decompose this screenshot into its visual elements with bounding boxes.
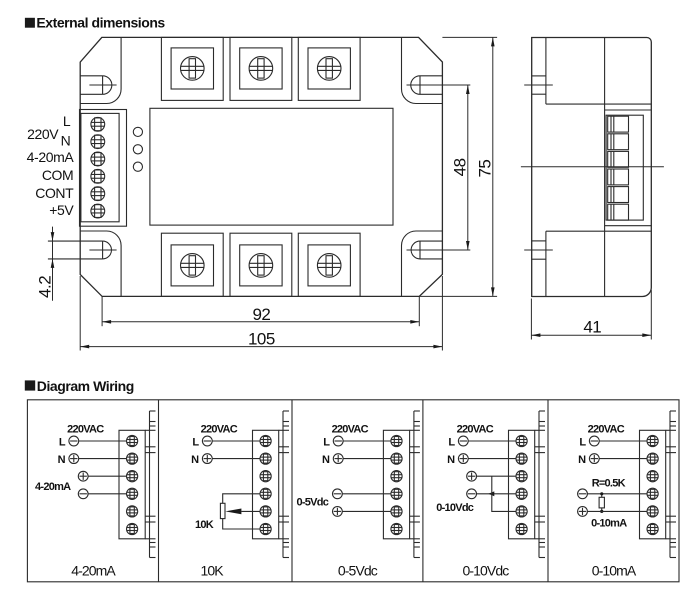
panel 3 module edge profile xyxy=(410,411,420,558)
right flange inner edge (top) with fillet xyxy=(402,37,443,103)
svg-text:105: 105 xyxy=(248,329,275,348)
wiring panel divider 1 xyxy=(158,400,160,582)
panel 5 strip screw 6 xyxy=(647,523,658,534)
svg-text:N: N xyxy=(322,454,330,466)
svg-text:L: L xyxy=(59,437,66,449)
side view top slot edge marks xyxy=(524,76,553,94)
bottom power terminal pad 4 xyxy=(161,233,223,296)
panel 4 module edge profile xyxy=(535,411,545,558)
panel 1 strip screw 3 xyxy=(127,471,138,482)
control terminal screw N xyxy=(91,135,105,149)
panel 4 label 0-10Vdc xyxy=(436,502,474,514)
panel 4 input - terminal wire with arrow to screw 4 xyxy=(467,489,516,499)
indicator LED 1 xyxy=(133,127,142,136)
panel 5 terminal N xyxy=(578,454,647,466)
panel 2 strip screw 3 xyxy=(260,471,271,482)
panel 1 label 4-20mA xyxy=(35,481,71,493)
panel 1 strip screw 2 xyxy=(127,453,138,464)
svg-text:+5V: +5V xyxy=(49,202,74,218)
dimension 41 xyxy=(531,290,651,340)
svg-text:220V: 220V xyxy=(27,126,59,142)
panel 4 terminal L xyxy=(448,436,516,448)
panel 3 terminal N xyxy=(322,454,391,466)
panel 5 strip screw 2 xyxy=(647,453,658,464)
panel 2 strip screw 6 xyxy=(260,523,271,534)
pin label 4-20mA xyxy=(27,149,75,165)
panel 4 strip screw 5 xyxy=(516,506,527,517)
top-right mounting slot xyxy=(411,76,443,95)
side view terminal cell 3 xyxy=(608,151,629,167)
svg-text:220VAC: 220VAC xyxy=(332,424,369,436)
panel 5 input + terminal wire to screw 5 xyxy=(578,507,647,517)
panel 2 terminal strip xyxy=(253,430,290,539)
SSR module side view outline xyxy=(532,38,652,297)
side view terminal cell 1 xyxy=(608,116,629,132)
panel 5 terminal L xyxy=(579,436,647,448)
panel 4 jumper wire to screw 5 xyxy=(492,476,516,511)
panel 5 strip screw 1 xyxy=(647,435,658,446)
side view step line top xyxy=(546,103,651,105)
svg-text:0-5Vdc: 0-5Vdc xyxy=(338,563,378,579)
panel 3 input - terminal xyxy=(333,489,391,499)
potentiometer top wire to screw 4 xyxy=(223,494,260,504)
svg-text:N: N xyxy=(61,133,71,149)
panel 2 strip screw 1 xyxy=(260,435,271,446)
svg-text:75: 75 xyxy=(475,160,494,178)
svg-text:4.2: 4.2 xyxy=(36,276,55,298)
top power terminal pad 1 xyxy=(161,37,223,100)
panel 1 strip screw 6 xyxy=(127,523,138,534)
panel 2 label 220VAC xyxy=(201,424,238,436)
svg-text:220VAC: 220VAC xyxy=(67,424,104,436)
side view horizontal centreline xyxy=(521,166,664,168)
bottom-right mounting slot xyxy=(411,241,442,259)
right flange inner edge (bottom) with fillet xyxy=(402,231,443,296)
wiring diagrams outer border xyxy=(27,400,679,582)
panel 1 label 220VAC xyxy=(67,424,104,436)
resistor R=0.5K body xyxy=(599,492,604,513)
svg-text:4-20mA: 4-20mA xyxy=(27,149,75,165)
left flange inner edge (bottom) with fillet xyxy=(80,231,121,296)
panel 5 label R=0.5K xyxy=(592,478,626,490)
side view terminal cell 4 xyxy=(608,169,629,185)
panel 5 strip screw 5 xyxy=(647,506,658,517)
control terminal screw L xyxy=(91,117,105,131)
panel 1 terminal strip xyxy=(119,430,156,539)
panel 3 strip screw 1 xyxy=(391,435,402,446)
panel 2 strip screw 5 xyxy=(260,506,271,517)
potentiometer bottom wire to screw 6 xyxy=(223,519,260,529)
panel 3 title 0-5Vdc xyxy=(338,563,378,579)
panel 1 title 4-20mA xyxy=(71,563,116,579)
svg-text:L: L xyxy=(323,437,330,449)
panel 3 label 0-5Vdc xyxy=(297,497,329,509)
pin label CONT xyxy=(35,185,74,201)
panel 5 strip screw 4 xyxy=(647,488,658,499)
section title: Diagram Wiring xyxy=(25,378,134,394)
panel 5 label 220VAC xyxy=(588,424,625,436)
control terminal screw COM xyxy=(91,169,105,183)
svg-text:N: N xyxy=(578,454,586,466)
svg-text:10K: 10K xyxy=(195,519,214,531)
panel 4 strip screw 4 xyxy=(516,488,527,499)
svg-text:N: N xyxy=(191,454,199,466)
dimension 92 xyxy=(102,296,419,326)
panel 4 strip screw 2 xyxy=(516,453,527,464)
side view terminal block cover box xyxy=(606,115,643,220)
side view bottom slot edge marks xyxy=(524,241,553,259)
svg-text:N: N xyxy=(58,454,66,466)
svg-text:R=0.5K: R=0.5K xyxy=(592,478,626,490)
panel 3 terminal strip xyxy=(383,430,420,539)
bottom-left mounting slot (with 4.2 extension lines) xyxy=(48,241,117,259)
top power terminal pad 2 xyxy=(230,37,292,100)
panel 3 strip screw 6 xyxy=(391,523,402,534)
side view inner flange line (top) xyxy=(545,38,547,105)
panel 2 strip screw 2 xyxy=(260,453,271,464)
panel 1 strip screw 5 xyxy=(127,506,138,517)
panel 3 strip screw 3 xyxy=(391,471,402,482)
svg-text:External dimensions: External dimensions xyxy=(36,15,165,31)
indicator LED 3 xyxy=(133,162,142,171)
panel 3 terminal L xyxy=(323,436,391,448)
section title: External dimensions xyxy=(25,15,166,31)
dimension 48 xyxy=(407,85,471,250)
panel 4 terminal N xyxy=(447,454,516,466)
bottom terminal screw 6 xyxy=(317,254,341,278)
top terminal screw 1 xyxy=(181,57,205,81)
svg-text:0-5Vdc: 0-5Vdc xyxy=(297,497,329,509)
left flange inner edge (top) with fillet xyxy=(80,37,121,103)
panel 4 strip screw 3 xyxy=(516,471,527,482)
top terminal screw 3 xyxy=(317,57,341,81)
svg-text:L: L xyxy=(63,113,71,129)
panel 1 terminal L xyxy=(59,436,127,448)
panel 2 module edge profile xyxy=(279,411,289,558)
centre label area rectangle xyxy=(150,108,393,225)
panel 5 module edge profile xyxy=(666,411,676,558)
svg-text:0-10Vdc: 0-10Vdc xyxy=(462,563,509,579)
svg-text:L: L xyxy=(192,437,199,449)
panel 3 strip screw 5 xyxy=(391,506,402,517)
side view step line bottom xyxy=(546,230,651,232)
panel 4 strip screw 6 xyxy=(516,523,527,534)
SSR module front view body outline xyxy=(80,37,442,296)
top power terminal pad 3 xyxy=(298,37,360,100)
wiring panel divider 2 xyxy=(291,400,293,582)
panel 3 input + terminal xyxy=(333,507,391,517)
svg-text:0-10mA: 0-10mA xyxy=(591,518,627,530)
svg-text:220VAC: 220VAC xyxy=(588,424,625,436)
svg-text:0-10mA: 0-10mA xyxy=(592,563,637,579)
side view terminal cell 2 xyxy=(608,134,629,150)
panel 1 strip screw 4 xyxy=(127,488,138,499)
panel 5 title 0-10mA xyxy=(592,563,637,579)
control terminal screw 4-20mA xyxy=(91,152,105,166)
svg-text:4-20mA: 4-20mA xyxy=(35,481,71,493)
panel 3 label 220VAC xyxy=(332,424,369,436)
svg-text:COM: COM xyxy=(42,167,73,183)
dimension 105 xyxy=(80,276,442,351)
panel 1 module edge profile xyxy=(145,411,155,558)
svg-text:0-10Vdc: 0-10Vdc xyxy=(436,502,474,514)
indicator LED 2 xyxy=(133,145,142,154)
bottom terminal screw 5 xyxy=(249,254,273,278)
svg-text:220VAC: 220VAC xyxy=(457,424,494,436)
top terminal screw 2 xyxy=(249,57,273,81)
wiring panel divider 4 xyxy=(547,400,549,582)
dimension 4.2 xyxy=(36,227,55,301)
panel 3 strip screw 4 xyxy=(391,488,402,499)
panel 4 terminal strip xyxy=(509,430,546,539)
panel 1 input - terminal xyxy=(78,489,126,499)
panel 5 label 0-10mA xyxy=(591,518,627,530)
control terminal block housing xyxy=(80,110,127,227)
svg-text:L: L xyxy=(579,437,586,449)
panel 1 input + terminal xyxy=(78,471,126,481)
control terminal screw CONT xyxy=(91,187,105,201)
top-left mounting slot xyxy=(80,76,116,95)
svg-text:Diagram Wiring: Diagram Wiring xyxy=(37,378,134,394)
svg-text:48: 48 xyxy=(450,158,469,176)
label 10K (component) xyxy=(195,519,214,531)
svg-text:41: 41 xyxy=(583,318,601,337)
panel 5 terminal strip xyxy=(640,430,677,539)
side view terminal cell 5 xyxy=(608,187,629,203)
panel 2 title 10K xyxy=(200,563,224,579)
dimension 75 xyxy=(419,37,497,296)
bottom power terminal pad 5 xyxy=(230,233,292,296)
svg-text:L: L xyxy=(448,437,455,449)
panel 1 strip screw 1 xyxy=(127,435,138,446)
svg-text:N: N xyxy=(447,454,455,466)
bottom terminal screw 4 xyxy=(181,254,205,278)
panel 3 strip screw 2 xyxy=(391,453,402,464)
side view terminal cell 6 xyxy=(608,204,629,220)
potentiometer 10K body xyxy=(220,503,225,518)
side view inner flange line (bottom) xyxy=(545,231,547,296)
panel 4 title 0-10Vdc xyxy=(462,563,509,579)
panel 5 strip screw 3 xyxy=(647,471,658,482)
pin label COM xyxy=(42,167,73,183)
svg-text:92: 92 xyxy=(252,305,270,324)
pin label +5V xyxy=(49,202,74,218)
panel 4 label 220VAC xyxy=(457,424,494,436)
bottom power terminal pad 6 xyxy=(298,233,360,296)
panel 2 strip screw 4 xyxy=(260,488,271,499)
svg-text:CONT: CONT xyxy=(35,185,74,201)
panel 5 input - terminal wire to screw 4 xyxy=(578,489,647,499)
pin label 220V L N xyxy=(27,113,71,149)
control terminal screw +5V xyxy=(91,204,105,218)
svg-text:220VAC: 220VAC xyxy=(201,424,238,436)
svg-text:4-20mA: 4-20mA xyxy=(71,563,116,579)
potentiometer wiper arrow to screw 5 xyxy=(225,509,260,515)
panel 4 strip screw 1 xyxy=(516,435,527,446)
panel 1 terminal N xyxy=(58,454,127,466)
side view terminal section bottom line xyxy=(605,225,652,227)
side view terminal section top line xyxy=(605,109,652,111)
svg-text:10K: 10K xyxy=(200,563,224,579)
panel 4 input + terminal wire to screw 3 xyxy=(467,471,516,481)
panel 2 terminal N xyxy=(191,454,260,466)
side view body/terminal divider xyxy=(604,38,606,297)
wiring panel divider 3 xyxy=(422,400,424,582)
panel 2 terminal L xyxy=(192,436,260,448)
